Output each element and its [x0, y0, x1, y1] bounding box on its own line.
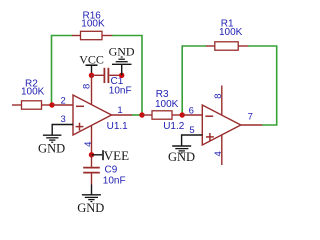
op-amp U1.1 — [61, 75, 133, 155]
resistor R3 — [142, 89, 182, 119]
svg-text:7: 7 — [248, 111, 253, 122]
svg-text:GND: GND — [168, 150, 195, 164]
wire — [52, 36, 73, 104]
svg-text:GND: GND — [38, 141, 65, 155]
svg-text:4: 4 — [213, 151, 224, 156]
svg-text:C9: C9 — [105, 165, 118, 176]
node VCC junction — [89, 73, 94, 78]
node A (R2 / pin2 / feedback junction) — [49, 102, 54, 107]
svg-text:100K: 100K — [155, 99, 179, 110]
svg-text:6: 6 — [189, 105, 194, 116]
svg-text:10nF: 10nF — [103, 175, 126, 186]
resistor R1 — [206, 18, 249, 50]
svg-text:U1.2: U1.2 — [163, 121, 185, 132]
ground GND (above C1) — [109, 44, 135, 75]
ground GND (below C9) — [77, 185, 104, 216]
svg-text:8: 8 — [82, 84, 93, 89]
resistor R2 — [12, 79, 52, 110]
svg-text:U1.1: U1.1 — [107, 121, 129, 132]
svg-text:VCC: VCC — [79, 52, 104, 66]
resistor R16 — [72, 11, 113, 40]
wire — [112, 36, 142, 114]
wire — [182, 46, 206, 113]
ground GND (pin 5) — [168, 146, 195, 164]
node C (R3 / R1 / pin6) — [180, 112, 185, 117]
power VEE — [92, 148, 130, 163]
power VCC — [79, 52, 104, 75]
wire — [248, 46, 277, 125]
svg-text:1: 1 — [117, 105, 122, 116]
svg-text:8: 8 — [213, 93, 224, 98]
capacitor C1 — [92, 68, 132, 97]
svg-text:100K: 100K — [81, 18, 105, 29]
svg-text:VEE: VEE — [104, 148, 129, 163]
node B (U1.1 out / R16 / R3) — [139, 112, 144, 117]
wire pin 6 — [182, 114, 202, 116]
node C1/GND junction — [119, 73, 124, 78]
op-amp U1.2 — [163, 86, 262, 166]
svg-text:100K: 100K — [219, 27, 243, 38]
wire pin 5 to ground — [182, 135, 203, 146]
svg-text:4: 4 — [83, 142, 94, 147]
node VEE junction — [89, 152, 94, 157]
svg-text:10nF: 10nF — [109, 85, 132, 96]
svg-text:GND: GND — [109, 44, 135, 58]
svg-text:GND: GND — [77, 201, 104, 215]
wire pin 2 — [52, 104, 73, 106]
capacitor C9 — [83, 155, 125, 187]
ground GND (pin 3) — [38, 135, 65, 155]
wire pin1 to R3 — [132, 114, 142, 116]
svg-text:100K: 100K — [21, 86, 45, 97]
svg-text:3: 3 — [61, 114, 66, 125]
wire pin 3 to ground — [52, 125, 73, 135]
svg-text:2: 2 — [61, 96, 66, 107]
